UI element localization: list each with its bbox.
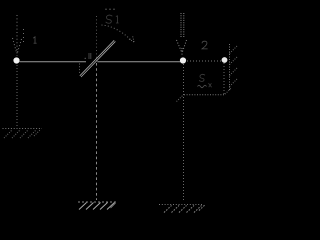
ground: middle support hatching: [79, 203, 115, 210]
wire: dotted horizontal of rectangle: [184, 94, 225, 96]
wire: dotted vertical node2 down to support: [183, 64, 185, 201]
wire: main horizontal bar left segment: [20, 61, 87, 63]
wall: right support hatching: [230, 46, 238, 87]
force arrow F1 (arrowhead): [13, 38, 22, 56]
arrowhead of arc: [129, 36, 134, 43]
ground: middle support line: [78, 201, 116, 203]
node B at wall: [222, 57, 228, 63]
ground: middle support extra stroke: [111, 203, 116, 208]
node 2: [180, 57, 186, 63]
label 2: [202, 41, 208, 49]
wire: dotted vertical below node B: [223, 63, 225, 95]
corner tick lower-left: [177, 95, 184, 101]
label 1: [33, 37, 36, 43]
junction dot grid: [85, 53, 92, 59]
node 1: [13, 57, 19, 63]
force arrow F2 (arrowhead): [177, 40, 187, 55]
force arrow F2 (double dotted shaft): [181, 13, 184, 38]
wire: middle vertical dashed (below bar): [96, 63, 98, 200]
ground: left support hatching: [4, 130, 40, 138]
wire: dotted drop below node 1: [16, 65, 18, 127]
wire: middle vertical dotted (above bar): [96, 16, 98, 61]
force arrow F1 (shaft): [16, 15, 18, 47]
wire: dotted link node2 to wall node: [187, 60, 221, 62]
link: dotted connector to bar S1 lower end: [79, 64, 81, 75]
corner tick upper-right: [225, 88, 231, 94]
wire: main horizontal bar right segment: [97, 61, 182, 63]
label S1: [105, 9, 119, 23]
ground: left support line: [3, 128, 43, 130]
rotation arc arrow near S1: [102, 25, 132, 41]
force arrow F1 (second dotted column): [23, 29, 25, 43]
bar S1 (double diagonal strut): [80, 40, 116, 77]
label S2: [198, 74, 212, 87]
ground: right bottom support line: [159, 204, 203, 206]
wall: right support line: [229, 44, 231, 90]
ground: right bottom support hatching: [164, 205, 205, 213]
